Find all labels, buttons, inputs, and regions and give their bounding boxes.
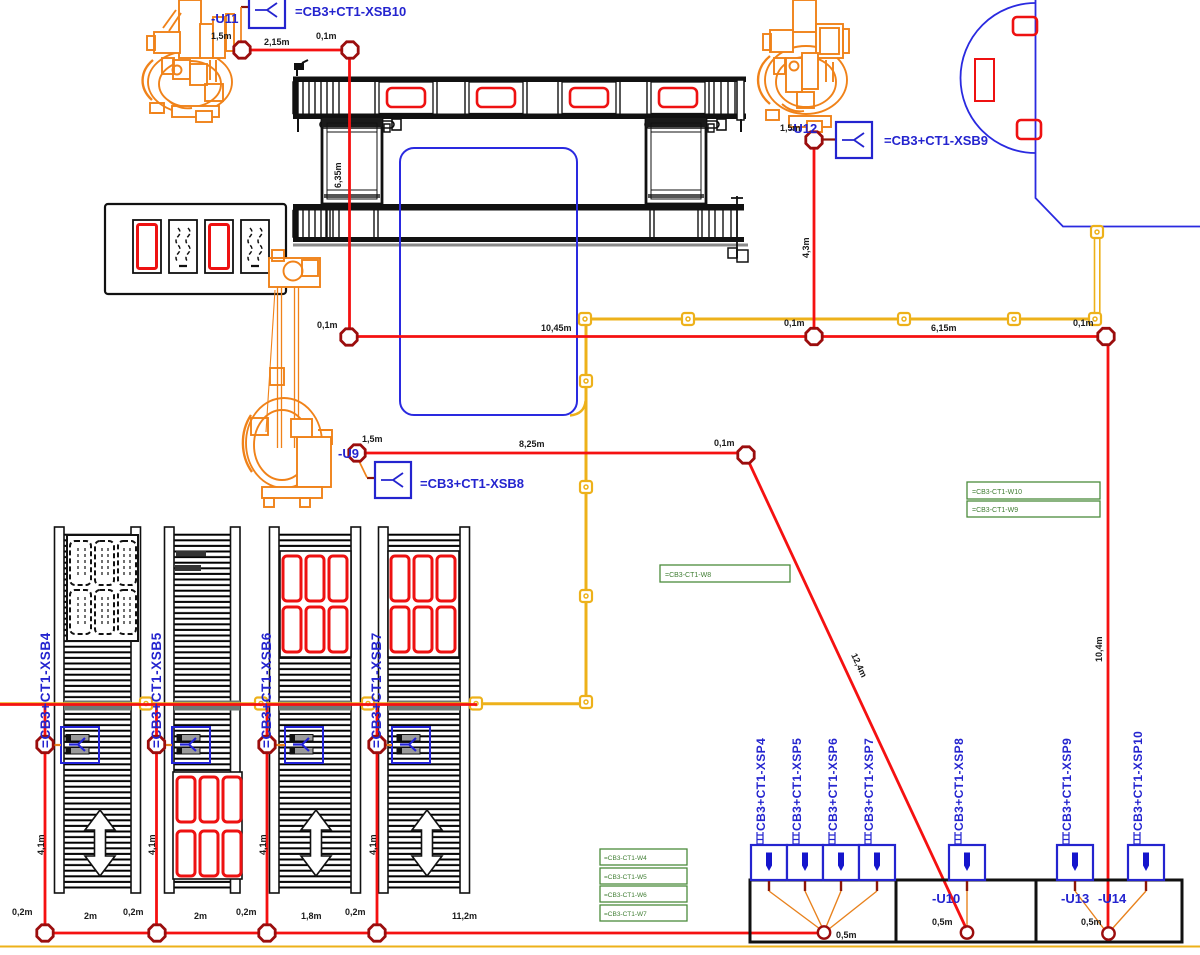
svg-text:0,1m: 0,1m (316, 31, 337, 41)
svg-text:1,5m: 1,5m (780, 123, 801, 133)
svg-text:1,5m: 1,5m (362, 434, 383, 444)
svg-text:6,15m: 6,15m (931, 323, 957, 333)
svg-text:0,1m: 0,1m (317, 320, 338, 330)
svg-text:=CB3+CT1-XSB8: =CB3+CT1-XSB8 (420, 476, 524, 491)
svg-text:=CB3-CT1-W8: =CB3-CT1-W8 (665, 572, 711, 579)
svg-text:10,4m: 10,4m (1094, 636, 1104, 662)
svg-text:4,1m: 4,1m (147, 834, 157, 855)
svg-text:CB3+CT1-XSP4: CB3+CT1-XSP4 (754, 738, 768, 831)
svg-text:1,5m: 1,5m (211, 31, 232, 41)
svg-text:=CB3-CT1-W4: =CB3-CT1-W4 (604, 855, 647, 862)
svg-text:-U10: -U10 (932, 891, 960, 906)
svg-text:=CB3+CT1-XSB4: =CB3+CT1-XSB4 (38, 632, 53, 748)
svg-text:-U13: -U13 (1061, 891, 1089, 906)
svg-text:0,5m: 0,5m (836, 930, 857, 940)
svg-text:4,3m: 4,3m (801, 237, 811, 258)
svg-text:2m: 2m (84, 911, 97, 921)
svg-text:10,45m: 10,45m (541, 323, 572, 333)
svg-text:CB3+CT1-XSP5: CB3+CT1-XSP5 (790, 738, 804, 831)
svg-text:2m: 2m (194, 911, 207, 921)
svg-text:=CB3+CT1-XSB5: =CB3+CT1-XSB5 (149, 632, 164, 748)
svg-text:0,2m: 0,2m (236, 907, 257, 917)
svg-text:1,8m: 1,8m (301, 911, 322, 921)
svg-text:=CB3+CT1-XSB10: =CB3+CT1-XSB10 (295, 4, 406, 19)
svg-text:6,35m: 6,35m (333, 162, 343, 188)
svg-text:=CB3-CT1-W7: =CB3-CT1-W7 (604, 911, 647, 918)
svg-text:-U14: -U14 (1098, 891, 1127, 906)
svg-text:=CB3+CT1-XSB7: =CB3+CT1-XSB7 (369, 632, 384, 748)
svg-text:-U9: -U9 (338, 446, 359, 461)
svg-text:=CB3+CT1-XSB9: =CB3+CT1-XSB9 (884, 133, 988, 148)
svg-text:=CB3-CT1-W10: =CB3-CT1-W10 (972, 489, 1022, 496)
svg-text:CB3+CT1-XSP6: CB3+CT1-XSP6 (826, 738, 840, 831)
svg-text:8,25m: 8,25m (519, 439, 545, 449)
svg-text:CB3+CT1-XSP7: CB3+CT1-XSP7 (862, 738, 876, 831)
svg-text:0,5m: 0,5m (1081, 917, 1102, 927)
svg-text:=CB3-CT1-W6: =CB3-CT1-W6 (604, 892, 647, 899)
svg-text:11,2m: 11,2m (452, 911, 477, 921)
svg-text:0,2m: 0,2m (12, 907, 33, 917)
svg-text:4,1m: 4,1m (258, 834, 268, 855)
svg-text:CB3+CT1-XSP10: CB3+CT1-XSP10 (1131, 731, 1145, 831)
svg-text:0,2m: 0,2m (345, 907, 366, 917)
svg-text:0,5m: 0,5m (932, 917, 953, 927)
svg-text:4,1m: 4,1m (368, 834, 378, 855)
svg-text:0,2m: 0,2m (123, 907, 144, 917)
svg-text:2,15m: 2,15m (264, 37, 290, 47)
svg-text:=CB3+CT1-XSB6: =CB3+CT1-XSB6 (259, 632, 274, 748)
svg-text:CB3+CT1-XSP9: CB3+CT1-XSP9 (1060, 738, 1074, 831)
svg-text:4,1m: 4,1m (36, 834, 46, 855)
svg-text:=CB3-CT1-W9: =CB3-CT1-W9 (972, 507, 1018, 514)
svg-text:0,1m: 0,1m (714, 438, 735, 448)
svg-text:0,1m: 0,1m (1073, 318, 1094, 328)
svg-text:CB3+CT1-XSP8: CB3+CT1-XSP8 (952, 738, 966, 831)
svg-text:-U11: -U11 (211, 11, 238, 26)
svg-text:=CB3-CT1-W5: =CB3-CT1-W5 (604, 874, 647, 881)
svg-text:0,1m: 0,1m (784, 318, 805, 328)
